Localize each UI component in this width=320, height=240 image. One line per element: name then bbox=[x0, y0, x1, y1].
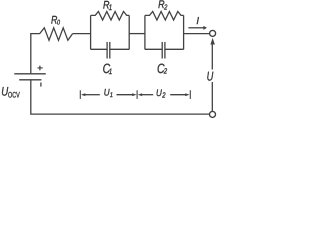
dimension U2 left arrowhead bbox=[138, 93, 142, 96]
svg-text:U: U bbox=[207, 69, 214, 84]
node: first RC block right edge bbox=[128, 15, 130, 49]
terminal: negative output circle bbox=[210, 111, 216, 117]
wire: C2 branch left lead bbox=[145, 48, 162, 50]
wire: C2 branch right lead bbox=[165, 48, 184, 50]
dimension line U1 left segment bbox=[84, 94, 100, 96]
battery plus sign bbox=[38, 66, 43, 71]
dimension tick middle bbox=[136, 90, 138, 99]
resistor R2 bbox=[145, 12, 184, 21]
dimension tick left bbox=[79, 90, 81, 99]
battery U_OCV bottom plate bbox=[19, 79, 41, 81]
label C2 bbox=[157, 61, 165, 76]
dimension U1 left arrowhead bbox=[81, 93, 85, 96]
node: second RC block left edge bbox=[144, 15, 146, 49]
wire: C1 branch left lead bbox=[91, 48, 108, 50]
svg-text:1: 1 bbox=[110, 92, 113, 99]
svg-text:2: 2 bbox=[162, 91, 166, 100]
label R2 bbox=[158, 0, 165, 11]
dimension U1 right arrowhead bbox=[132, 93, 136, 96]
wire: battery bottom plate down to bottom rail bbox=[31, 81, 210, 115]
current arrow I line bbox=[188, 27, 203, 29]
dimension tick right bbox=[189, 90, 191, 99]
dimension U2 right arrowhead bbox=[185, 93, 189, 96]
capacitor C2 bbox=[161, 42, 163, 59]
battery U_OCV top plate bbox=[14, 73, 46, 75]
svg-text:1: 1 bbox=[109, 3, 113, 12]
label I bbox=[196, 16, 199, 27]
svg-text:I: I bbox=[196, 16, 199, 27]
svg-text:U: U bbox=[156, 88, 162, 99]
svg-text:2: 2 bbox=[163, 2, 167, 11]
svg-text:U: U bbox=[104, 88, 110, 99]
resistor R1 bbox=[91, 12, 130, 21]
voltage arrow U line upper bbox=[211, 44, 213, 70]
svg-text:2: 2 bbox=[163, 66, 168, 75]
node: second RC block right edge bbox=[183, 15, 185, 49]
svg-text:0: 0 bbox=[57, 20, 60, 27]
capacitor C1 bbox=[106, 42, 108, 59]
label U1 bbox=[104, 88, 110, 99]
dimension line U1 right segment bbox=[117, 94, 134, 96]
wire: R0 to first RC block bbox=[73, 33, 91, 35]
dimension line U2 left segment bbox=[141, 94, 153, 96]
label C1 bbox=[103, 61, 111, 76]
label R1 bbox=[103, 0, 110, 12]
node: first RC block left edge bbox=[90, 15, 92, 49]
resistor R0 bbox=[40, 28, 73, 41]
battery minus tick bbox=[40, 83, 42, 87]
wire: left vertical from top corner down to battery top plate bbox=[31, 34, 40, 74]
wire: block2 to positive terminal bbox=[184, 33, 210, 35]
label U_OCV bbox=[1, 85, 8, 99]
voltage arrow U head bbox=[210, 38, 215, 45]
svg-text:1: 1 bbox=[109, 67, 112, 76]
label R0 bbox=[51, 15, 57, 27]
wire: C1 branch right lead bbox=[110, 48, 129, 50]
wire: between RC blocks bbox=[129, 33, 145, 35]
terminal: positive output circle bbox=[210, 30, 216, 36]
current arrow I head bbox=[203, 26, 207, 30]
voltage arrow U line lower bbox=[211, 82, 213, 111]
label U2 bbox=[156, 88, 162, 99]
svg-text:OCV: OCV bbox=[8, 91, 20, 100]
dimension line U2 right segment bbox=[170, 94, 186, 96]
svg-text:U: U bbox=[1, 85, 8, 99]
label U (terminal voltage) bbox=[207, 69, 214, 84]
